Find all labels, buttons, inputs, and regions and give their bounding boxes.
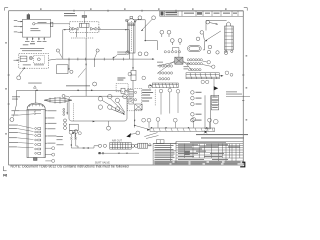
balloon 20 (128, 72, 132, 76)
balloon pair A (138, 30, 182, 55)
balloon above bus left (56, 49, 59, 52)
downstream line (132, 53, 134, 70)
filter bottle body (225, 26, 234, 50)
arrow on pipe left (64, 29, 66, 30)
small box left of bus (57, 65, 69, 74)
drop wire 2 (85, 27, 87, 37)
air valve assembly (top center) (63, 11, 130, 59)
cluster leaders (102, 100, 124, 113)
leader balloon6 (203, 34, 204, 41)
right loop circuit (191, 91, 250, 134)
right wall stubs (45, 111, 46, 143)
bottom stub 3 (38, 37, 40, 40)
leader from label to bus (112, 55, 117, 58)
black flag (214, 86, 218, 90)
AIR IN label (117, 78, 125, 81)
bottom arrow (93, 121, 95, 123)
bottom stub 1 (26, 37, 28, 40)
balloon 22 (10, 118, 14, 122)
balloon pair B (170, 39, 174, 43)
balloon left of tube (148, 85, 151, 88)
leader from balloon 1 (134, 19, 139, 22)
title block header text (196, 134, 248, 139)
wire down (134, 110, 136, 128)
pin stub left 3 (18, 31, 23, 33)
right circle terminals (45, 147, 54, 163)
bus tick 5 (103, 58, 105, 61)
balloon 2 (152, 16, 156, 20)
bus feed to manifold bars (129, 58, 154, 60)
leader balloon5 to assembly (210, 23, 218, 25)
drop to balloon (14, 104, 17, 117)
valve cap (82, 16, 87, 18)
bowtie valve right (91, 27, 97, 30)
wire from assembly to tank (203, 31, 221, 50)
foot circles (225, 50, 227, 52)
twin valve drop assembly (bottom left center) (57, 130, 95, 149)
feed joins valve inlet (93, 146, 95, 148)
balloon at box corner (62, 95, 65, 98)
tank body (27, 110, 45, 158)
stepped wire (133, 20, 157, 50)
vent stem on dome (35, 90, 37, 103)
port column inside tank (35, 128, 41, 155)
bottom stub 2 (32, 37, 34, 40)
main bus (56, 38, 129, 96)
black arrowhead callout (126, 133, 131, 137)
fill pressure manifold (left, dashed) (14, 44, 57, 88)
inlet circles (98, 144, 101, 147)
gas cylinder (top middle) (128, 16, 158, 88)
tank foot (34, 158, 38, 161)
labels near balloons (196, 92, 202, 121)
balloon 18 (93, 82, 97, 86)
left labels with leaders (9, 125, 19, 148)
drop from lens (66, 102, 68, 114)
vertical dividers (171, 142, 240, 163)
balloon 14 (201, 80, 204, 83)
storage tank (bottom left) (9, 90, 57, 162)
bus tick 3 (85, 58, 87, 61)
balloons on left (191, 91, 195, 95)
pipe right (100, 29, 129, 31)
balloon a (69, 130, 73, 134)
end fitting (148, 145, 152, 147)
balloon 21 (142, 76, 146, 80)
outlet wire to bus (48, 59, 56, 60)
port circle right (98, 28, 100, 30)
corner trim mark bottom-left (3, 166, 6, 171)
fan leaders (203, 61, 208, 62)
pipe left (63, 29, 70, 31)
dashed boundary (116, 84, 128, 92)
leader from balloon 2 (141, 19, 152, 31)
labels (142, 90, 153, 102)
cylinder dome (128, 19, 135, 23)
zone tick right 2 (242, 100, 244, 102)
trace line label (226, 91, 242, 94)
twin verticals (70, 140, 72, 149)
stem to border (83, 11, 85, 16)
pin stub left 2 (18, 26, 23, 28)
side box on right wall (51, 22, 53, 27)
manifold valve circle (29, 56, 32, 59)
control box (top-left, dashed enclosure) (18, 13, 70, 40)
arrow on downstream (132, 67, 133, 69)
zone tick top 1 (73, 10, 75, 12)
inner dashed rect (34, 55, 45, 63)
bead row 1 (187, 59, 202, 61)
inner top markers (34, 110, 41, 114)
merge to horizontal feed (71, 146, 94, 148)
balloon 17 (70, 70, 73, 73)
small triangle mark (34, 86, 37, 88)
release air valve label (117, 52, 129, 55)
balloon c (78, 132, 81, 135)
top bead row (164, 51, 180, 53)
label under (28, 82, 42, 85)
cylinder valve cap (130, 17, 133, 19)
balloon 15 (206, 80, 209, 83)
ribbed body right (138, 143, 148, 148)
lens element (44, 97, 72, 115)
label (20, 48, 44, 51)
dashed vertical (154, 90, 156, 106)
bus tick 1 (68, 58, 70, 61)
outer (153, 142, 243, 165)
surt valve assembly (bottom center) (94, 131, 159, 164)
svg-text:NOTE: Document TD80-9012 OS c: NOTE: Document TD80-9012 OS contains ins… (11, 165, 129, 169)
drain line (19, 68, 24, 76)
cylinder body (128, 23, 135, 53)
dashed enclosure (70, 22, 99, 33)
loop wire (205, 95, 210, 129)
right feed wire down (128, 30, 130, 59)
horizontal row lines right part (153, 144, 243, 163)
balloon 6 (200, 31, 204, 35)
bead row 3 (189, 69, 202, 71)
balloon 1 (138, 16, 142, 20)
horizontal receiver tank (right) (188, 46, 228, 55)
bottom marks inside (23, 63, 44, 66)
filter bottle cap (227, 22, 231, 26)
mid circles (131, 144, 134, 147)
bead row A (159, 65, 173, 67)
leaders up right (144, 133, 157, 137)
balloon 13 (225, 71, 229, 75)
balloon 11 (207, 61, 210, 64)
X valve node (175, 57, 183, 64)
X box (135, 104, 142, 110)
bottom fitting (205, 131, 207, 133)
inlet stub (14, 59, 19, 61)
valve body (80, 23, 90, 27)
right labels with leaders (47, 110, 56, 143)
label AIR VALVE (64, 13, 77, 16)
balloon 12 (212, 65, 215, 68)
bowtie valve left (73, 27, 79, 30)
cluster labels (157, 62, 189, 70)
arrow on pipe right (125, 29, 127, 30)
X valve marks (70, 137, 72, 139)
small fitting circle (126, 19, 128, 21)
hose balloons (147, 118, 151, 122)
step wire from bottle cap (206, 21, 227, 31)
center caption text (66, 85, 90, 86)
zone tick right 1 (242, 74, 244, 76)
right assembly (top right) (196, 20, 233, 52)
port circle left (69, 28, 71, 30)
left feed wire down to bus (62, 30, 64, 59)
tank dome (27, 103, 45, 110)
bottom stub 4 (43, 37, 45, 40)
bus tick 4 (94, 58, 96, 61)
stubs (70, 134, 72, 137)
zone tick left 2 (8, 103, 10, 105)
zone tick top 3 (141, 10, 143, 12)
bead manifold right (187, 59, 215, 71)
terminal box inside (20, 56, 27, 61)
corner trim mark top-left (5, 8, 9, 11)
zone tick top 2 (107, 10, 109, 12)
ribbed body left (110, 143, 131, 150)
svg-text:F6: F6 (3, 174, 7, 178)
arrow at tube end (221, 75, 224, 77)
balloon 13b (230, 73, 233, 76)
border frame (9, 11, 244, 165)
transformer on top of control box (27, 15, 30, 20)
control box labels (14, 20, 47, 44)
corner trim mark bottom-right (240, 162, 245, 167)
dashed link line (71, 37, 94, 39)
bus tick 2 (77, 58, 79, 61)
wire above node (172, 48, 179, 58)
vertical from bus to box (85, 38, 87, 96)
manifold cluster (center right) (126, 48, 192, 89)
balloon below box (107, 126, 111, 130)
zone tick left 1 (8, 74, 10, 76)
top-left labels (11, 110, 19, 115)
left part rows (153, 144, 176, 151)
balloon cluster (98, 97, 102, 101)
stack dashed enclosure (128, 88, 142, 111)
balloon 8 (208, 45, 212, 49)
diamond wires (157, 61, 192, 74)
drop wire 1 (76, 30, 78, 37)
wire from lamp out to right (35, 23, 70, 25)
drop from bus with arrow (68, 59, 70, 70)
ribbed tube below cluster (152, 83, 178, 88)
valve box below cylinder (131, 70, 136, 80)
lamp circle inside control box (33, 23, 35, 25)
balloon 23 (142, 118, 146, 122)
small circle column left (63, 108, 65, 110)
balloon 7 (196, 37, 200, 41)
small top label (23, 44, 29, 45)
dark cell mark (184, 151, 190, 155)
drop to flag (213, 79, 215, 87)
balloon b (74, 130, 78, 134)
svg-text:AIR OUT: AIR OUT (112, 139, 123, 142)
balloon 5 (206, 20, 210, 24)
bead row C (159, 78, 170, 80)
bus tick 7 (122, 58, 124, 61)
balloon 24 (136, 131, 140, 135)
title block text (155, 142, 241, 164)
balloon 16 (17, 76, 21, 80)
pin stub left 1 (18, 21, 23, 23)
vertical from bus short (94, 59, 96, 67)
balloon above bus mid (96, 49, 99, 52)
balloon 19 (126, 51, 130, 55)
bead row 2 (187, 63, 202, 65)
corner trim mark top-right (244, 8, 247, 11)
valve stem (83, 17, 85, 23)
balloon row right (207, 50, 210, 53)
revision table (160, 11, 244, 16)
zone number marks (5, 8, 247, 134)
ribbed hose (bottom) (135, 89, 215, 132)
bead row B (159, 72, 173, 74)
balloon pair C (138, 52, 142, 56)
bus tick 6 (113, 58, 115, 61)
lower wire with markers (98, 152, 139, 154)
big balloon (214, 119, 219, 124)
left cluster below box (64, 119, 79, 140)
line continues down (132, 80, 134, 88)
zone tick top 4 (175, 10, 177, 12)
left stack assembly (center) (128, 88, 156, 127)
rounded enclosure box (center) (62, 94, 127, 130)
high balloons with long leaders (159, 89, 163, 114)
stacked boxes right (211, 95, 218, 99)
title block (153, 140, 243, 165)
left small labels (57, 136, 64, 145)
long tube right (186, 71, 233, 97)
long pipe (left) (10, 88, 128, 121)
raised cage box (156, 140, 164, 144)
vertical dashed inside (72, 103, 74, 121)
revision table text (161, 12, 238, 16)
cylinder dip tube (130, 21, 132, 51)
diagonal feed to hose (135, 125, 150, 129)
